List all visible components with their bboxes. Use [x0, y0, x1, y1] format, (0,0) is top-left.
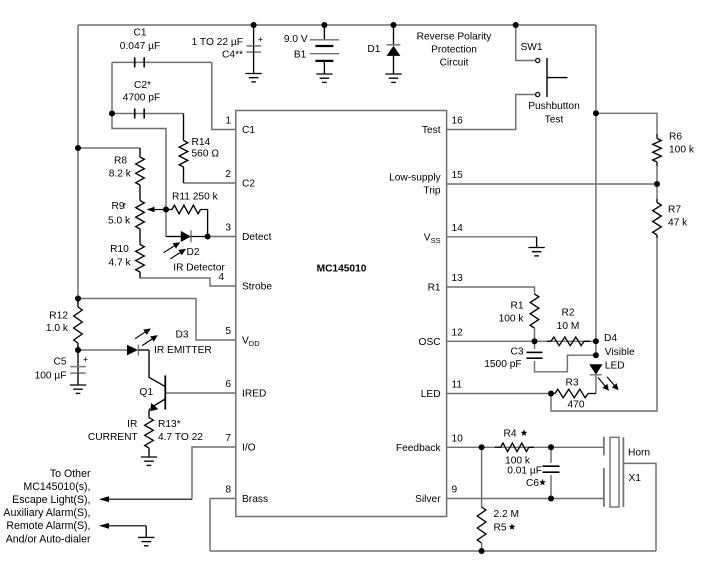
wire: horn right lead to bottom rail	[623, 463, 656, 551]
svg-text:100 k: 100 k	[669, 145, 695, 156]
svg-text:2: 2	[225, 169, 231, 180]
junction: R9 wiper node	[163, 207, 169, 213]
svg-text:Strobe: Strobe	[242, 282, 272, 293]
svg-text:Remote Alarm(S),: Remote Alarm(S),	[6, 520, 90, 532]
wire: pin12 OSC row	[447, 340, 596, 342]
resistor R8	[109, 148, 145, 201]
svg-text:R5: R5	[494, 523, 507, 534]
svg-text:IR: IR	[127, 419, 137, 430]
pin 7 label I/O	[225, 433, 255, 454]
svg-text:100 k: 100 k	[499, 314, 525, 325]
svg-text:4700 pF: 4700 pF	[123, 93, 160, 104]
wire: pin1 drop	[212, 62, 236, 129]
svg-text:12: 12	[452, 327, 464, 338]
svg-text:14: 14	[452, 223, 464, 234]
pin 9 label Silver	[415, 485, 457, 506]
resistor R5	[477, 507, 519, 543]
svg-text:R7: R7	[668, 205, 681, 216]
svg-text:1500 pF: 1500 pF	[484, 359, 521, 370]
svg-text:1 TO 22 µF: 1 TO 22 µF	[192, 37, 243, 48]
svg-text:LED: LED	[421, 389, 441, 400]
pin 11 label LED	[421, 380, 463, 401]
svg-text:Low-supply: Low-supply	[389, 173, 441, 184]
wire: C1 row	[112, 61, 212, 63]
pin 16 label Test	[422, 116, 463, 137]
svg-text:C6: C6	[526, 478, 539, 489]
svg-text:0.047 µF: 0.047 µF	[120, 41, 160, 52]
svg-text:To Other: To Other	[50, 468, 91, 480]
svg-text:5.0 k: 5.0 k	[108, 216, 131, 227]
wire: R5 bottom lead	[481, 543, 483, 551]
resistor R1	[499, 294, 539, 328]
svg-text:Horn: Horn	[628, 447, 650, 458]
svg-text:560 Ω: 560 Ω	[192, 149, 220, 160]
diode D1 reverse polarity	[367, 25, 401, 82]
svg-text:R13*: R13*	[158, 419, 181, 430]
resistor R9 potentiometer	[108, 201, 144, 245]
svg-text:LED: LED	[605, 360, 625, 371]
wire: pin11 LED row	[447, 393, 551, 395]
svg-text:6: 6	[225, 379, 231, 390]
junction: left rail D3/C5 node	[75, 347, 81, 353]
resistor R6	[653, 132, 695, 167]
wire: R1 bottom lead	[534, 328, 536, 341]
svg-text:Brass: Brass	[242, 494, 268, 505]
pin 13 label R1	[428, 273, 464, 294]
junction: C6/pin9	[548, 496, 554, 502]
wire: strobe jog from R10 bottom to pin4	[140, 278, 236, 286]
wire: pin9 Silver to horn	[447, 498, 604, 500]
pin 10 label Feedback	[396, 433, 463, 454]
wire: C3 return jog	[535, 355, 596, 372]
R9 wiper arrow	[147, 207, 165, 212]
junction: left rail pin5 branch	[75, 296, 81, 302]
wire: left rail R12-to-C5 segment	[77, 346, 79, 352]
svg-text:3: 3	[225, 223, 231, 234]
svg-text:C2*: C2*	[134, 80, 151, 91]
wire: C6 bottom lead	[550, 475, 552, 499]
svg-text:C2: C2	[242, 179, 255, 190]
resistor R11	[166, 192, 219, 237]
svg-text:Visible: Visible	[605, 347, 635, 358]
svg-text:C4**: C4**	[222, 50, 243, 61]
svg-text:And/or Auto-dialer: And/or Auto-dialer	[6, 533, 91, 545]
junction: C3 return/LED anode	[593, 352, 599, 358]
svg-text:D4: D4	[604, 333, 617, 344]
svg-text:C3: C3	[510, 347, 523, 358]
svg-text:Feedback: Feedback	[396, 443, 442, 454]
junction: OSC/R1/C3 node	[532, 338, 538, 344]
resistor R13	[88, 412, 203, 465]
junction: C1/C2 node	[109, 111, 115, 117]
wire: left VDD rail upper segment	[77, 25, 79, 304]
pin 2 label C2	[225, 169, 255, 190]
resistor R14	[179, 114, 219, 184]
svg-text:+: +	[83, 355, 88, 365]
arrow: remote alarm ground	[99, 523, 146, 529]
junction: left rail R8 feed	[75, 145, 81, 151]
junction: R4/C6/horn top	[548, 444, 554, 450]
junction: rail-D1	[391, 22, 397, 28]
capacitor C2	[123, 80, 160, 119]
wire: pin7 I/O down-left	[192, 447, 236, 499]
wire: pin2 from R14	[184, 182, 236, 184]
svg-text:R11 250 k: R11 250 k	[172, 192, 219, 203]
svg-text:IR Detector: IR Detector	[173, 263, 225, 274]
svg-text:↑: ↑	[122, 201, 127, 212]
svg-text:MC145010: MC145010	[317, 264, 367, 275]
svg-text:10 M: 10 M	[557, 321, 580, 332]
svg-text:R3: R3	[565, 378, 578, 389]
switch SW1 pushbutton	[521, 42, 580, 126]
svg-text:4: 4	[218, 272, 224, 283]
svg-text:9: 9	[452, 485, 458, 496]
op-amp U1 IC box MC145010	[236, 111, 447, 517]
wire: pin6 IRED to Q1 base	[165, 392, 236, 394]
capacitor C3	[484, 347, 542, 371]
svg-text:B1: B1	[294, 49, 307, 60]
D2 light arrows	[164, 242, 187, 259]
wire: pin3 from D2 junction	[208, 236, 236, 238]
pin 15 label LST	[389, 170, 463, 197]
junction: pin11/R3/R7 return	[548, 391, 554, 397]
arrow: I/O output	[99, 496, 192, 502]
junction: R6 branch on VDD drop	[593, 110, 599, 116]
diode D2 IR Detector	[166, 230, 225, 273]
wire: R6 bottom lead	[656, 166, 658, 184]
svg-text:MC145010(s),: MC145010(s),	[23, 481, 90, 493]
svg-text:Trip: Trip	[423, 186, 441, 197]
svg-text:+: +	[258, 35, 263, 45]
pin 5 label VDD	[225, 326, 260, 348]
label: Reverse Polarity Protection Circuit	[417, 32, 493, 69]
wire: pin14 VSS to ground	[447, 236, 537, 238]
svg-text:R10: R10	[110, 244, 129, 255]
svg-text:D3: D3	[176, 330, 189, 341]
pin 1 label C1	[225, 116, 255, 137]
capacitor C5	[35, 350, 89, 393]
svg-text:8: 8	[225, 485, 231, 496]
svg-text:Test: Test	[422, 125, 441, 136]
svg-text:Silver: Silver	[415, 494, 441, 505]
wire: D3 anode feed	[78, 349, 127, 351]
svg-text:Pushbutton: Pushbutton	[528, 101, 580, 112]
resistor R4	[495, 429, 534, 467]
svg-text:Circuit: Circuit	[440, 58, 469, 69]
horn X1 piezo	[604, 437, 650, 507]
svg-text:470: 470	[568, 400, 585, 411]
wire: C6 top lead	[550, 447, 552, 463]
svg-text:47 k: 47 k	[668, 218, 688, 229]
svg-text:1: 1	[225, 116, 231, 127]
svg-text:Detect: Detect	[242, 232, 272, 243]
battery B1	[284, 25, 339, 82]
junction: rail-B1	[321, 22, 327, 28]
wire: R7 top lead	[656, 184, 658, 199]
svg-text:IRED: IRED	[242, 389, 266, 400]
svg-text:15: 15	[452, 170, 464, 181]
wire: pin5 VDD feed from left rail	[78, 299, 236, 341]
svg-text:10: 10	[452, 433, 464, 444]
svg-text:C1: C1	[242, 125, 255, 136]
wire: pin13 to R1	[447, 287, 535, 294]
svg-text:4.7 TO 22: 4.7 TO 22	[158, 432, 203, 443]
svg-text:OSC: OSC	[419, 337, 441, 348]
wire: R5 top lead	[481, 447, 483, 507]
svg-text:Escape Light(S),: Escape Light(S),	[12, 494, 90, 506]
svg-text:I/O: I/O	[242, 443, 256, 454]
wire: C3 top lead	[534, 341, 536, 349]
pin 4 label Strobe	[218, 272, 272, 293]
LED D4 Visible	[589, 333, 635, 394]
svg-text:D2: D2	[186, 247, 199, 258]
wire: VDD top rail	[78, 24, 596, 26]
resistor R7	[653, 199, 688, 238]
svg-text:R4: R4	[503, 429, 516, 440]
wire: C2 row to R14 top	[112, 113, 184, 115]
junction: rail-SW1	[513, 22, 519, 28]
svg-text:Reverse Polarity: Reverse Polarity	[417, 32, 493, 43]
resistor R12	[46, 299, 82, 351]
svg-text:CURRENT: CURRENT	[88, 432, 138, 443]
svg-text:4.7 k: 4.7 k	[108, 257, 131, 268]
pin 6 label IRED	[225, 379, 266, 400]
wire: R7 return to LED pin	[551, 238, 657, 411]
svg-text:1.0 k: 1.0 k	[46, 323, 69, 334]
ground at remote alarm arrow	[138, 526, 154, 546]
junction: D2 cathode / pin3	[205, 234, 211, 240]
wire: C1 left vertical	[111, 62, 113, 113]
resistor R2	[547, 308, 590, 346]
wire: pin16 Test to SW1	[447, 95, 536, 130]
svg-text:16: 16	[452, 116, 464, 127]
svg-text:9.0 V: 9.0 V	[284, 34, 308, 45]
capacitor C1	[120, 27, 160, 67]
svg-text:2.2 M: 2.2 M	[494, 509, 519, 520]
svg-text:7: 7	[225, 433, 231, 444]
svg-text:R14: R14	[192, 137, 211, 148]
svg-text:100 µF: 100 µF	[35, 371, 67, 382]
diode D3 IR emitter	[127, 330, 212, 357]
wire: pin10 Feedback to horn	[447, 446, 604, 448]
wire: bottom rail	[210, 550, 656, 552]
svg-text:5: 5	[225, 326, 231, 337]
resistor R10	[108, 244, 144, 278]
wire: C2-junction jog down to wiper column	[112, 114, 166, 237]
svg-text:8.2 k: 8.2 k	[109, 169, 132, 180]
D3 light arrows	[135, 328, 158, 345]
wire: pin15 Low-supply Trip to divider	[447, 183, 657, 185]
wire: SW1 top contact to rail	[516, 25, 536, 61]
wire: pin8 Brass loop to bottom rail	[210, 499, 236, 552]
junction: pin10/R5	[479, 444, 485, 450]
svg-text:C5: C5	[53, 357, 66, 368]
svg-text:R12: R12	[49, 311, 68, 322]
transistor Q1	[139, 350, 165, 412]
junction: R5/bottom rail	[479, 548, 485, 554]
D4 light arrows	[598, 377, 619, 391]
junction: R2/VDD drop	[593, 338, 599, 344]
pin 14 label VSS	[424, 223, 463, 245]
svg-text:R1: R1	[428, 283, 441, 294]
wire: right VDD drop (rail to LED anode)	[595, 25, 597, 355]
resistor R3	[551, 378, 596, 411]
capacitor C6	[507, 466, 559, 490]
pin 8 label Brass	[225, 485, 268, 506]
svg-text:Q1: Q1	[139, 387, 153, 398]
svg-text:X1: X1	[629, 473, 642, 484]
capacitor C4	[192, 25, 264, 82]
svg-text:D1: D1	[367, 44, 380, 55]
svg-text:Auxiliary Alarm(S),: Auxiliary Alarm(S),	[3, 507, 90, 519]
pin 3 label Detect	[225, 223, 271, 244]
svg-text:IR EMITTER: IR EMITTER	[154, 345, 212, 356]
svg-text:R6: R6	[669, 132, 682, 143]
label: To Other list	[3, 468, 91, 545]
svg-text:13: 13	[452, 273, 464, 284]
svg-text:R2: R2	[561, 308, 574, 319]
wire: R6 branch	[596, 113, 657, 134]
svg-text:Test: Test	[545, 115, 564, 126]
svg-text:0.01 µF: 0.01 µF	[507, 466, 542, 477]
junction: rail-C4	[251, 22, 257, 28]
svg-text:C1: C1	[133, 27, 146, 38]
svg-text:SW1: SW1	[521, 42, 543, 53]
svg-text:Protection: Protection	[431, 45, 477, 56]
pin 12 label OSC	[419, 327, 464, 348]
svg-text:R1: R1	[510, 301, 523, 312]
junction: R6/R7/pin15	[654, 181, 660, 187]
ground at VSS pin 14	[528, 237, 544, 256]
wire: R8 feed from left rail	[78, 147, 140, 149]
svg-text:R8: R8	[114, 156, 127, 167]
svg-text:11: 11	[452, 380, 463, 391]
